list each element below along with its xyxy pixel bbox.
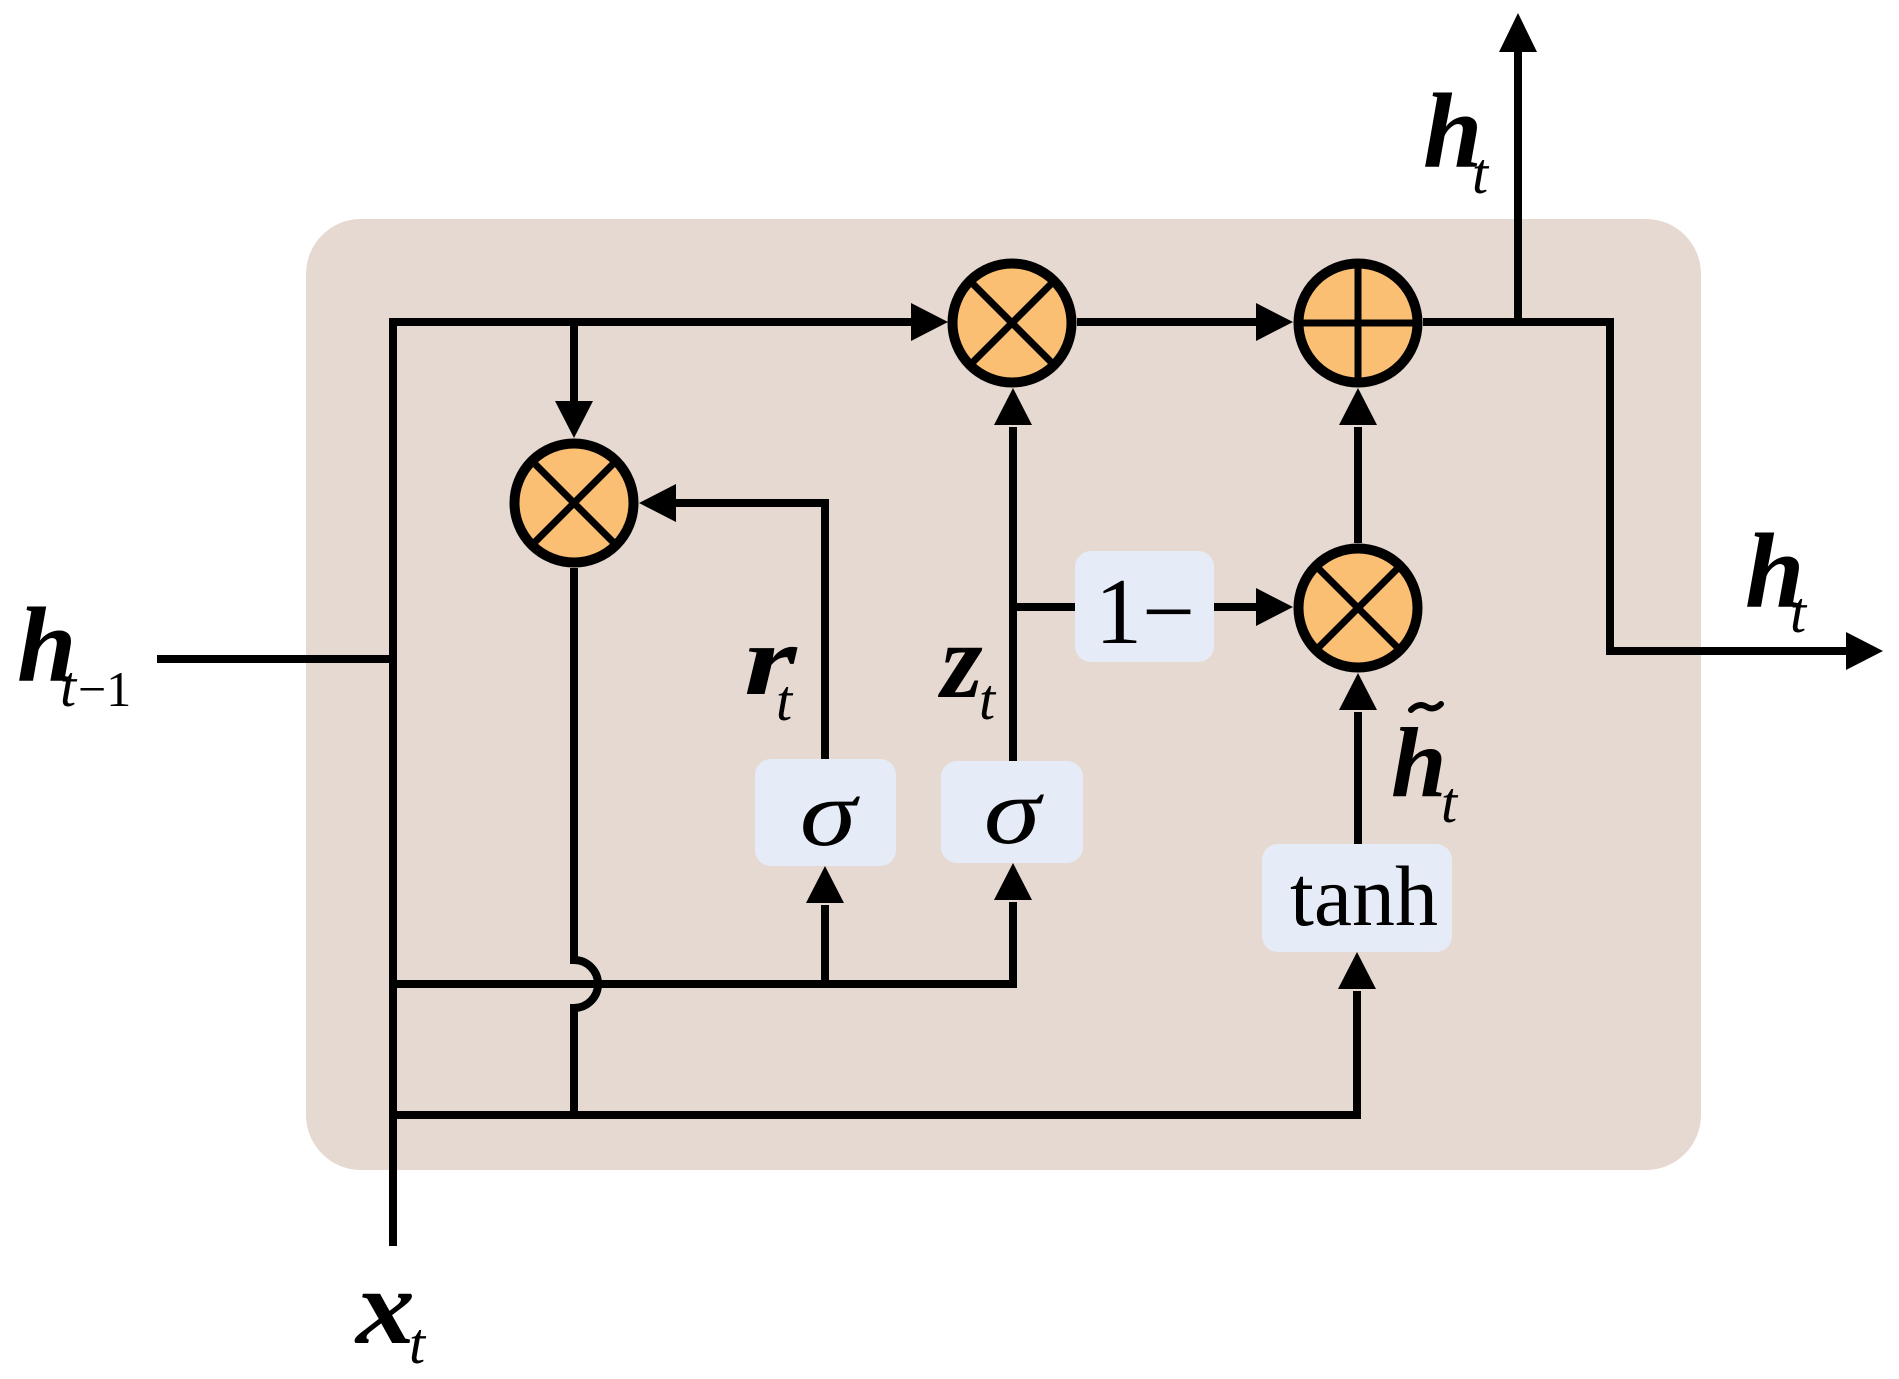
wire: h_t-1 input — [157, 655, 397, 663]
wire: candidate bus into tanh — [393, 952, 1376, 1115]
wire: z_t branch to one-minus box — [1013, 603, 1075, 611]
tanh box — [1262, 844, 1452, 952]
wire: r_t feedback from sigma into multiplier B — [639, 484, 825, 759]
label z_t — [937, 603, 997, 732]
elementwise multiplier A — [953, 264, 1072, 383]
svg-text:tanh: tanh — [1290, 848, 1438, 944]
svg-text:t: t — [1790, 580, 1808, 645]
svg-text:−1: −1 — [78, 661, 131, 717]
label x_t — [354, 1249, 427, 1376]
wire: h_t output branch upward — [1499, 13, 1537, 322]
svg-text:x: x — [354, 1249, 415, 1367]
label h_t-1 — [17, 587, 131, 719]
wire: x_t input vertical and top bus into multiplier A — [393, 303, 948, 1246]
svg-text:t: t — [1472, 141, 1490, 206]
sigma box (reset gate) — [755, 759, 896, 866]
svg-text:1−: 1− — [1095, 560, 1195, 664]
label r_t — [744, 605, 799, 733]
wire: multiplier B output down to candidate bus with hop over gate bus — [574, 568, 598, 1115]
adder C — [1298, 263, 1418, 383]
wire: z_t from sigma up into multiplier A — [994, 388, 1032, 761]
wire: multiplier D output up into adder C — [1339, 388, 1377, 543]
sigma box (update gate) — [941, 760, 1083, 864]
svg-text:h: h — [1391, 707, 1447, 818]
wire: branch down into multiplier B — [555, 318, 593, 438]
svg-text:σ: σ — [984, 760, 1045, 864]
svg-text:t: t — [979, 667, 997, 732]
one-minus box — [1075, 551, 1214, 664]
label h_t right — [1745, 513, 1808, 645]
svg-text:t: t — [60, 654, 78, 719]
wire: tanh output up into multiplier D — [1339, 673, 1377, 844]
svg-text:t: t — [1441, 770, 1459, 835]
wire: one-minus output into multiplier D — [1214, 588, 1293, 626]
GRU cell body — [306, 219, 1701, 1170]
label h_t top — [1423, 73, 1490, 206]
elementwise multiplier B — [515, 444, 634, 563]
label h-tilde_t — [1391, 704, 1459, 835]
wire: multiplier A output into adder C — [1077, 303, 1293, 341]
svg-text:t: t — [409, 1311, 427, 1376]
svg-text:σ: σ — [800, 762, 861, 866]
svg-text:z: z — [937, 603, 983, 721]
elementwise multiplier D — [1299, 549, 1418, 668]
wire: h_t output bus to the right — [1423, 322, 1883, 670]
svg-text:t: t — [776, 668, 794, 733]
wire: gate bus feeding sigma boxes — [393, 863, 1032, 984]
